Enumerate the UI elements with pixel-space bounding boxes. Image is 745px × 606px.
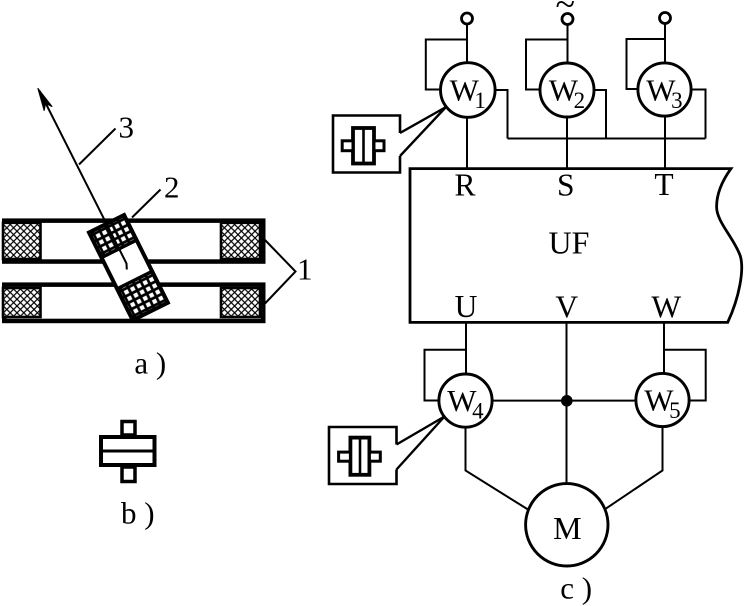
wire junction to W5: [567, 400, 637, 402]
callout box lower: [329, 427, 397, 484]
wire W3 right to bus: [691, 90, 706, 139]
pointer 1: [265, 240, 296, 304]
wire W1 to R: [466, 117, 468, 169]
wire W5 to motor: [605, 427, 663, 510]
svg-text:S: S: [557, 168, 575, 203]
wire W1 right to bus: [495, 90, 508, 139]
svg-text:b ): b ): [121, 496, 155, 531]
terminal of W2: [562, 14, 573, 25]
bypass loop of W2: [526, 40, 568, 90]
svg-text:T: T: [654, 167, 673, 202]
svg-text:W: W: [651, 290, 681, 325]
motor M: [526, 484, 608, 566]
surge device W3: [638, 63, 691, 116]
hatched clip block bottom-right: [221, 288, 260, 317]
svg-text:R: R: [454, 167, 475, 202]
surge device W4: [439, 374, 492, 427]
figure b: fuse symbol body: [101, 437, 155, 465]
svg-text:1: 1: [297, 252, 313, 287]
bypass loop of W5: [664, 350, 706, 401]
leader line 2: [132, 190, 161, 218]
UF converter box: [410, 169, 742, 323]
terminal of W3: [660, 13, 671, 24]
svg-text:U: U: [455, 289, 478, 324]
bypass loop of W4: [425, 350, 467, 401]
wire terminal to W3: [664, 24, 666, 64]
bypass loop of W3: [627, 39, 666, 89]
callout box upper: [333, 116, 400, 173]
hatched clip block top-right: [221, 223, 260, 259]
hatched clip block bottom-left: [3, 288, 41, 317]
junction node: [561, 395, 573, 407]
surge device W5: [636, 373, 689, 426]
svg-text:V: V: [555, 290, 578, 325]
callout tail upper: [400, 107, 446, 156]
fuse symbol in upper callout: [353, 128, 374, 164]
fuse symbol in lower callout: [350, 438, 369, 475]
wire terminal to W1: [466, 24, 468, 63]
surge device W1: [441, 63, 496, 118]
svg-text:3: 3: [119, 110, 135, 145]
figure a: bottom bus bar: [4, 285, 263, 321]
leader line 3: [79, 129, 116, 165]
wire W2 right to bus: [594, 90, 606, 139]
wire W3 to T: [664, 116, 666, 169]
bus wire: [508, 138, 706, 140]
callout tail lower: [397, 417, 445, 470]
terminal of W1: [462, 13, 473, 24]
svg-text:2: 2: [164, 170, 180, 205]
surge device W2: [540, 63, 594, 117]
wire U to W4: [465, 322, 467, 374]
wire W to W5: [663, 322, 665, 374]
figure b: fuse middle line: [99, 450, 157, 453]
wire W4 to junction: [492, 400, 562, 402]
bypass loop of W1: [426, 40, 467, 90]
arrow 3 (removal direction): [40, 91, 127, 270]
wire terminal to W2: [567, 25, 569, 64]
figure b: top lead stub: [122, 422, 135, 436]
wire W4 to motor: [466, 427, 529, 509]
fuse cartridge 2 (tilted): [89, 215, 168, 320]
svg-text:a ): a ): [134, 346, 166, 381]
hatched clip block top-left: [3, 223, 41, 259]
svg-text:c ): c ): [560, 571, 592, 606]
figure b: bottom lead stub: [122, 467, 135, 482]
wire V to motor: [566, 322, 568, 483]
figure a: top bus bar: [4, 221, 263, 262]
wire W2 to S: [566, 117, 568, 169]
svg-text:M: M: [553, 510, 581, 546]
svg-text:UF: UF: [549, 225, 590, 261]
